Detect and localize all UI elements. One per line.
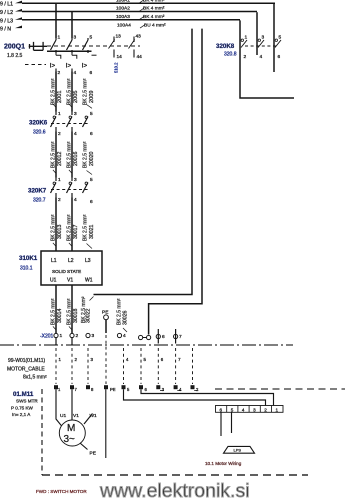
svg-text:-X201: -X201 [40,334,54,340]
wire L1 bus [22,2,275,4]
svg-text:43: 43 [136,34,142,40]
K8 pole 1 contact [241,39,243,41]
svg-text:44: 44 [137,54,143,60]
svg-text:PE: PE [110,387,116,392]
stub right of square 158 [160,390,164,392]
svg-text:4: 4 [74,197,77,203]
svg-text:14: 14 [117,54,123,60]
cable core 2 [71,348,73,384]
cable core 3 [87,348,89,384]
svg-text:1.8 2.5: 1.8 2.5 [7,53,23,59]
node L2 incoming arrow [15,9,22,14]
svg-text:30026: 30026 [123,310,129,325]
K7 pole 1 contact [51,178,57,198]
terminal 5 jumper [139,335,143,339]
svg-text:6: 6 [278,54,281,60]
trip unit I> pole 2 [72,53,77,59]
wire to W1 (stub) [84,414,93,425]
node L3 incoming arrow [15,17,22,22]
svg-text:7: 7 [178,357,181,362]
terminal 3 [86,333,90,337]
svg-text:320K6: 320K6 [29,120,48,127]
svg-text:4: 4 [179,387,182,392]
K7 pole 3 contact [83,183,89,194]
wire drop L1 to 200Q1 pole 1 [55,3,57,38]
svg-text:9 / N: 9 / N [0,27,11,33]
svg-text:BK 2.5 mm²: BK 2.5 mm² [50,214,56,241]
svg-text:In= 2,1 A: In= 2,1 A [12,412,31,417]
svg-text:1: 1 [276,408,279,413]
PE connection tick [80,443,88,450]
cable core 6 [157,348,159,384]
svg-text:8x1,5 mm²: 8x1,5 mm² [23,375,47,381]
svg-text:BK 2.5 mm²: BK 2.5 mm² [66,141,72,168]
svg-text:320.8: 320.8 [224,52,237,58]
svg-text:320.6: 320.6 [33,130,46,136]
pin tick top L1 [55,248,57,252]
aux contact 43-44 [133,37,135,58]
svg-text:4: 4 [242,408,245,413]
soft starter 310K1 box [41,251,102,285]
svg-text:4: 4 [123,333,126,339]
svg-text:1: 1 [59,357,62,362]
svg-text:U1: U1 [60,413,66,419]
svg-text:U1: U1 [50,278,57,284]
svg-text:9 / L2: 9 / L2 [0,10,13,16]
svg-text:3: 3 [253,408,256,413]
svg-text:3: 3 [74,111,77,117]
wire V1 out [71,285,73,333]
mechanical tie bar [47,50,92,52]
cable core 4 [123,348,125,384]
svg-text:FWD : SWITCH MOTOR: FWD : SWITCH MOTOR [36,489,87,494]
svg-text:6: 6 [90,70,93,76]
svg-text:V1: V1 [73,413,79,419]
svg-text:5: 5 [127,387,130,392]
svg-text:310.1: 310.1 [20,266,33,272]
svg-text:01.M11: 01.M11 [13,391,34,398]
terminal 2 [70,333,74,337]
K7 linkage dashed [51,189,90,191]
svg-text:5: 5 [279,35,282,41]
svg-text:100A1: 100A1 [116,0,130,3]
stub right of square 175 [177,390,181,392]
svg-text:3~: 3~ [64,434,76,445]
svg-text:2009: 2009 [89,91,95,103]
svg-text:100A4: 100A4 [117,22,131,28]
wire 2016 (K6 to K7 pole2) [71,132,73,178]
wire square(123.5) to connector cell2 [124,389,266,405]
svg-text:200Q1: 200Q1 [4,44,25,51]
cable core 5 [140,348,142,384]
mechanical linkage dashed [47,45,140,47]
svg-text:BK 2.5 mm²: BK 2.5 mm² [82,214,88,241]
field boundary dashed right [215,388,345,390]
svg-text:1: 1 [58,111,61,117]
svg-text:BK 2.5 mm²: BK 2.5 mm² [66,214,72,241]
svg-text:L2: L2 [68,258,74,264]
wire L3 drop to K8 pole1 and through to output elbow [240,20,294,98]
K7 pole 2 contact [67,178,73,198]
terminal 6 [157,329,159,344]
wire L2 bus [22,11,257,13]
node N incoming arrow [15,26,22,31]
svg-text:BK 2.5 mm²: BK 2.5 mm² [50,141,56,168]
svg-text:3: 3 [262,35,265,41]
svg-text:W1: W1 [85,278,93,284]
K6 pole 1 contact [51,112,57,132]
svg-text:3: 3 [162,387,165,392]
svg-text:6: 6 [220,408,223,413]
field enclosure dashed left [41,389,43,475]
svg-text:10.1 Motor Wiring: 10.1 Motor Wiring [205,461,242,466]
svg-text:P 0.75 KW: P 0.75 KW [11,406,34,411]
svg-text:W1: W1 [90,413,98,419]
wire connector cell6 down [220,412,222,436]
motor M1 circle [59,420,85,446]
svg-text:BK 2.5 mm²: BK 2.5 mm² [50,78,56,105]
pin tick top L2 [71,248,73,252]
svg-text:2: 2 [196,387,199,392]
svg-text:30021: 30021 [89,224,95,239]
svg-text:L1: L1 [51,258,57,264]
svg-text:V1: V1 [67,278,73,284]
svg-text:6: 6 [162,334,165,340]
svg-text:30018: 30018 [73,308,79,323]
svg-text:MOTOR_CABLE: MOTOR_CABLE [7,367,45,373]
wire square(141) to connector cell1 [141,389,274,405]
wire to V1 [71,389,73,420]
wire 2005 (Q1 to K6 pole2) [71,72,73,112]
svg-text:3: 3 [91,357,94,362]
K6 linkage dashed [51,123,90,125]
aux contact 13-14 [113,37,115,58]
terminal 7 [175,329,177,344]
trip unit I> pole 3 [92,54,97,56]
svg-text:1: 1 [60,333,63,339]
svg-text:320.7: 320.7 [33,198,46,204]
svg-text:2: 2 [58,197,61,203]
svg-text:1: 1 [245,35,248,41]
svg-text:510.2: 510.2 [114,62,119,73]
svg-text:5: 5 [90,177,93,183]
svg-text:3: 3 [74,35,77,41]
svg-text:20016: 20016 [73,151,79,166]
svg-text:BK 2.5 mm²: BK 2.5 mm² [82,141,88,168]
svg-text:LPS: LPS [234,447,242,452]
svg-text:SWS MTR: SWS MTR [16,399,38,404]
terminal 1 [54,333,58,337]
groups get inserted here [0,0,275,38]
K6 pole 2 contact [67,112,73,132]
svg-text:4: 4 [260,54,263,60]
wire connector cell5 down [231,412,233,433]
wire 3017 (K7 to 310K1) [71,198,73,252]
svg-text:7: 7 [179,334,182,340]
wire 2001 (Q1 to K6 pole1) [55,72,57,112]
svg-text:30013: 30013 [57,224,63,239]
brake device trapezoid [224,446,255,453]
K8 pole 3 contact [275,39,277,41]
terminal 4 [117,333,121,337]
svg-text:BK 2.5 mm²: BK 2.5 mm² [50,298,56,325]
svg-text:20012: 20012 [57,151,63,166]
svg-text:99-W01(01.M11): 99-W01(01.M11) [8,358,45,364]
svg-text:6: 6 [145,387,148,392]
svg-text:L3: L3 [85,258,91,264]
svg-text:I>: I> [82,63,88,70]
svg-text:2: 2 [244,54,247,60]
breaker pole 2 contact [67,38,73,53]
svg-text:I>: I> [66,63,72,70]
svg-text:9 / L1: 9 / L1 [0,2,13,8]
svg-text:320K8: 320K8 [216,43,235,50]
svg-text:2: 2 [76,333,79,339]
svg-text:30014: 30014 [57,308,63,323]
svg-text:20020: 20020 [89,151,95,166]
svg-text:2: 2 [58,70,61,76]
svg-text:30017: 30017 [73,224,79,239]
wire 2012 (K6 to K7 pole1) [55,132,57,178]
PE wire down [105,389,107,458]
svg-text:3: 3 [92,333,95,339]
svg-text:BK 4 mm²: BK 4 mm² [143,0,165,3]
node L1 incoming arrow [15,1,22,6]
svg-text:1: 1 [58,387,61,392]
wire U1 out [55,285,57,333]
breaker 200Q1 handle symbol [29,42,47,50]
wire to U1 [56,389,62,426]
svg-text:BU 4 mm²: BU 4 mm² [144,22,166,28]
cable core 8 [192,348,194,384]
wire bypass phase B (vertical x202) [149,29,202,335]
svg-text:7: 7 [75,387,78,392]
svg-text:2: 2 [75,357,78,362]
svg-text:BK 2.5 mm²: BK 2.5 mm² [66,78,72,105]
K8 linkage dashed [245,45,276,47]
svg-text:320K7: 320K7 [28,188,47,195]
svg-text:6: 6 [90,131,93,137]
wire bypass phase A (vertical x192) [94,29,193,295]
svg-text:4: 4 [74,131,77,137]
svg-text:I>: I> [50,63,56,70]
svg-text:BK 2.5 mm²: BK 2.5 mm² [82,78,88,105]
svg-text:2: 2 [264,408,267,413]
svg-text:2: 2 [58,131,61,137]
cable core 7 [175,348,177,384]
svg-text:www.elektronik.si: www.elektronik.si [99,480,250,500]
wire 3013 (K7 to 310K1) [55,198,57,252]
svg-text:4: 4 [74,70,77,76]
svg-text:2005: 2005 [73,91,79,103]
svg-text:BK 2.5 mm²: BK 2.5 mm² [66,298,72,325]
svg-text:6: 6 [161,357,164,362]
svg-text:M: M [67,423,75,434]
svg-text:5: 5 [90,35,93,41]
wire L2 drop to K8 pole2 [256,12,258,55]
connector block [216,406,284,413]
svg-text:BK 4 mm²: BK 4 mm² [143,6,165,12]
svg-text:5: 5 [90,111,93,117]
cable core 1 [55,348,57,384]
svg-text:5: 5 [144,357,147,362]
K8 pole 2 contact [258,39,260,41]
connection squares row [55,386,58,389]
K6 pole 3 contact [83,117,89,128]
stub right of square 192 [194,390,198,392]
wire drop L2 to 200Q1 pole 3 [71,12,73,39]
breaker pole 1 contact [51,38,57,53]
svg-text:13: 13 [116,34,122,40]
svg-text:1: 1 [58,177,61,183]
svg-text:4: 4 [126,357,129,362]
svg-text:1: 1 [58,35,61,41]
trip unit I> pole 1 [56,53,61,59]
svg-text:5: 5 [231,408,234,413]
trip linkage dashed [25,64,46,66]
cable core PE [105,335,107,384]
breaker pole 3 contact [83,38,89,53]
svg-text:9 / L3: 9 / L3 [0,18,13,24]
svg-text:30022: 30022 [86,308,92,323]
svg-text:6: 6 [90,199,93,205]
svg-text:100A3: 100A3 [116,14,130,20]
svg-text:3: 3 [74,177,77,183]
wire L3 bus [22,19,240,21]
svg-text:2001: 2001 [57,91,63,103]
svg-text:310K1: 310K1 [19,255,38,262]
cabinet boundary dash-dot [0,344,293,346]
field enclosure dashed bottom [42,474,308,476]
svg-text:SOLID STATE: SOLID STATE [52,269,81,274]
svg-text:8: 8 [91,387,94,392]
svg-text:PE: PE [90,451,96,457]
svg-text:100A2: 100A2 [116,6,130,12]
svg-text:BK 4 mm²: BK 4 mm² [143,14,165,20]
wire L1 drop to K8 pole3 [273,4,275,72]
